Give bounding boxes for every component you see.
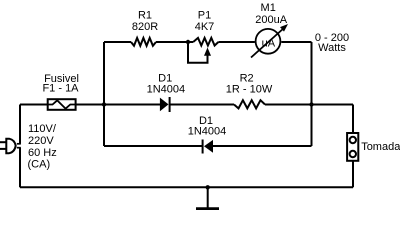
potentiometer P1 wiper arrow xyxy=(204,48,211,56)
outlet Tomada rectangle xyxy=(347,133,358,161)
svg-text:200uA: 200uA xyxy=(255,14,287,26)
svg-text:uA: uA xyxy=(262,38,276,50)
meter M1 circle xyxy=(256,29,281,54)
wire: top branch from meter to right riser xyxy=(281,41,311,43)
resistor R2 xyxy=(234,100,265,108)
svg-text:60 Hz: 60 Hz xyxy=(28,147,57,159)
node junction dot at P1 left terminal xyxy=(186,40,190,44)
wire: lower branch from diode to right riser xyxy=(213,145,312,147)
diode D1 upper cathode bar xyxy=(169,97,171,112)
svg-text:M1: M1 xyxy=(261,2,276,14)
wire: right vertical from middle branch down to outlet xyxy=(352,105,354,133)
wire: right riser from top branch down to lower branch xyxy=(311,42,313,146)
wire: top branch between R1 and P1 xyxy=(156,41,193,43)
ground stub wire xyxy=(207,187,209,207)
svg-text:820R: 820R xyxy=(132,21,158,33)
wire: middle branch from fuse to diode D1 xyxy=(76,104,160,106)
wire: bottom return wire xyxy=(20,186,353,188)
wire: top branch left segment from left riser corner to R1 xyxy=(104,41,131,43)
meter M1 arrowhead xyxy=(280,24,288,32)
svg-text:Tomada: Tomada xyxy=(361,141,400,153)
wire: P1 wiper return to left terminal xyxy=(188,42,208,63)
svg-text:Watts: Watts xyxy=(318,42,346,54)
svg-text:220V: 220V xyxy=(28,135,54,147)
wire: left vertical mains wire upper segment xyxy=(19,105,21,144)
plug body xyxy=(6,139,15,154)
wire: right vertical from outlet down to bottom wire xyxy=(352,161,354,187)
diode D1 lower triangle xyxy=(204,140,213,153)
meter M1 diagonal arrow xyxy=(251,28,284,58)
node junction dot middle branch / right riser xyxy=(309,102,313,106)
wire: middle branch from D1 to R2 xyxy=(170,104,234,106)
node junction dot at ground connection xyxy=(206,185,210,189)
potentiometer P1 body xyxy=(193,38,218,46)
wire: left riser from top branch to lower branch xyxy=(103,42,105,146)
diode D1 lower cathode bar xyxy=(202,140,204,154)
svg-text:F1 - 1A: F1 - 1A xyxy=(42,82,79,94)
plug prong upper xyxy=(0,141,6,143)
svg-text:4K7: 4K7 xyxy=(195,21,215,33)
diode D1 upper triangle xyxy=(160,98,169,112)
svg-text:P1: P1 xyxy=(198,9,211,21)
svg-text:1N4004: 1N4004 xyxy=(188,126,227,138)
fuse F1 internal element xyxy=(48,100,76,108)
outlet upper contact circle xyxy=(350,137,356,143)
wire: middle branch from left vertical to fuse xyxy=(20,104,47,106)
wire: left vertical mains wire lower segment xyxy=(19,148,21,188)
wire: lower branch from left riser to diode D1 lower xyxy=(104,145,202,147)
wire: socket notch lower tick xyxy=(17,147,21,149)
wire: middle branch from R2 to right corner xyxy=(265,104,353,106)
svg-text:(CA): (CA) xyxy=(28,159,51,171)
ground bar xyxy=(196,207,219,210)
plug prong lower xyxy=(0,148,6,150)
wire: top branch between P1 and meter M1 xyxy=(218,41,255,43)
svg-text:110V/: 110V/ xyxy=(28,123,57,135)
svg-text:1N4004: 1N4004 xyxy=(147,83,186,95)
wire: socket notch upper tick xyxy=(17,143,21,145)
fuse F1 rectangle xyxy=(48,99,76,110)
resistor R1 xyxy=(131,38,156,46)
svg-text:R1: R1 xyxy=(138,9,152,21)
outlet lower contact circle xyxy=(350,151,356,157)
node junction dot at left riser / middle branch xyxy=(102,102,106,106)
svg-text:1R - 10W: 1R - 10W xyxy=(226,83,273,95)
